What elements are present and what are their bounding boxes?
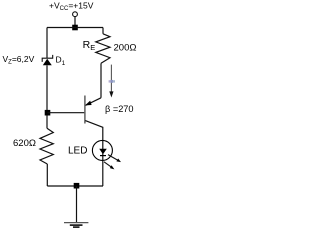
wire base xyxy=(48,112,85,114)
current arrow IE xyxy=(109,65,115,98)
svg-text:200Ω: 200Ω xyxy=(114,43,137,54)
svg-text:620Ω: 620Ω xyxy=(13,138,36,149)
wire bottom rail xyxy=(47,185,103,187)
resistor RE 200 ohm xyxy=(96,34,110,64)
wire right branch to resistor xyxy=(102,28,104,34)
svg-text:LED: LED xyxy=(68,146,87,157)
wire top rail xyxy=(47,27,103,29)
junction base node (square) xyxy=(45,110,51,116)
resistor 620 ohm xyxy=(40,128,53,164)
transistor Q1 (PNP) xyxy=(85,96,103,141)
junction ground node (square) xyxy=(74,183,80,189)
wire left branch upper xyxy=(46,28,48,59)
wire RE to emitter corner xyxy=(100,63,102,98)
svg-text:β =270: β =270 xyxy=(105,104,134,114)
emitter arrow xyxy=(85,101,92,106)
junction VCC node (square) xyxy=(72,25,78,31)
wire terminal to junction xyxy=(74,17,76,25)
svg-text:+VCC=+15V: +VCC=+15V xyxy=(49,1,94,13)
wire left branch lower xyxy=(46,164,48,186)
LED D2 xyxy=(92,140,121,169)
bar xyxy=(84,96,86,124)
supply terminal circle xyxy=(73,12,78,17)
wire left branch middle xyxy=(46,65,48,128)
wire ground stub xyxy=(76,186,78,222)
svg-text:VZ=6,2V: VZ=6,2V xyxy=(3,54,35,65)
wire collector through LED to bottom xyxy=(102,140,104,186)
emission arrow 1 xyxy=(108,155,118,161)
emission arrow 2 xyxy=(104,162,112,167)
emitter wire xyxy=(85,98,101,106)
zener diode D1 xyxy=(42,55,53,65)
collector wire xyxy=(85,121,103,141)
ground xyxy=(64,223,88,228)
